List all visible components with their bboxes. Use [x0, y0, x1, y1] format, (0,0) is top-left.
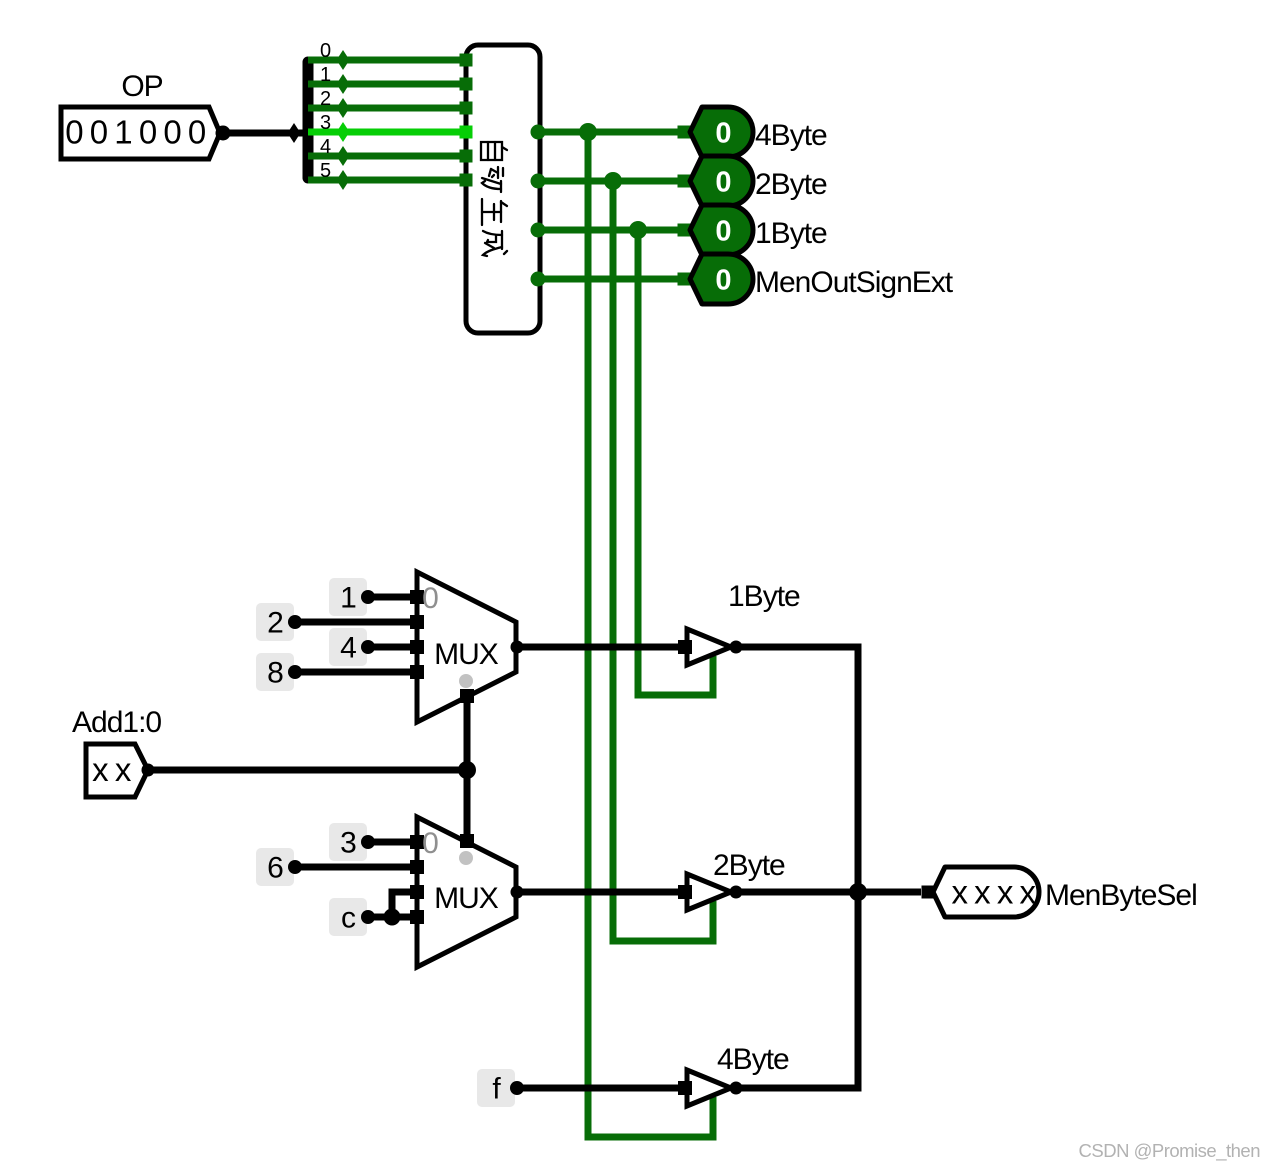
U1 input pin 1: [460, 78, 473, 91]
svg-text:CSDN @Promise_then: CSDN @Promise_then: [1079, 1140, 1261, 1162]
wire M2 out to buffer B2: [517, 889, 686, 896]
splitter input arrow: [288, 123, 301, 143]
constant 2: [256, 603, 294, 641]
pin dot constant 1: [361, 590, 375, 604]
M2 output dot: [511, 886, 524, 899]
svg-text:2Byte: 2Byte: [755, 168, 827, 201]
wire constant 6: [295, 864, 417, 871]
M2 select pin: [460, 834, 474, 848]
splitter arrow bit5: [337, 170, 350, 190]
splitter arrow bit3: [337, 122, 350, 142]
output 4Byte input pin: [678, 126, 691, 139]
U1 output pin 2Byte: [531, 174, 546, 189]
svg-text:4: 4: [340, 632, 356, 665]
svg-text:0 0 1 0 0 0: 0 0 1 0 0 0: [65, 114, 206, 151]
constant 1: [329, 578, 367, 616]
output 1Byte input pin: [678, 224, 691, 237]
wire U1 to output MenOutSignExt: [538, 276, 690, 283]
wire constant 8: [295, 669, 417, 676]
svg-text:x x: x x: [92, 751, 132, 788]
M2 input pin y917: [410, 910, 424, 924]
svg-text:8: 8: [267, 657, 283, 690]
svg-text:MenByteSel: MenByteSel: [1045, 879, 1197, 912]
svg-text:6: 6: [267, 852, 283, 885]
svg-text:0: 0: [715, 265, 730, 297]
output LED 4Byte: [690, 107, 753, 157]
svg-text:3: 3: [340, 827, 356, 860]
output MenByteSel input pin: [922, 886, 935, 899]
svg-text:MUX: MUX: [434, 882, 499, 915]
buffer 2Byte output dot: [730, 886, 743, 899]
wire constant 4: [368, 644, 417, 651]
pin dot constant 3: [361, 835, 375, 849]
input pin Add1:0 value xx: [86, 744, 148, 797]
svg-text:2: 2: [320, 88, 331, 110]
M2 input pin y842: [410, 835, 424, 849]
constant 4: [329, 628, 367, 666]
constant c: [329, 898, 367, 936]
output LED 2Byte: [690, 156, 753, 206]
svg-text:1Byte: 1Byte: [728, 580, 800, 613]
M1 output dot: [511, 641, 524, 654]
M2 select indicator dot: [459, 851, 473, 865]
node J3 on 1Byte wire: [629, 221, 647, 239]
U1 output pin 1Byte: [531, 223, 546, 238]
buffer 2Byte input pin: [678, 885, 692, 899]
svg-text:0: 0: [715, 118, 730, 150]
constant f: [477, 1069, 515, 1107]
buffer 4Byte output dot: [730, 1082, 743, 1095]
svg-text:MenOutSignExt: MenOutSignExt: [755, 266, 954, 299]
splitter arrow bit1: [337, 74, 350, 94]
tristate buffer 2Byte: [687, 874, 731, 910]
svg-text:0: 0: [422, 827, 438, 860]
wire B2 out to output pin: [736, 889, 921, 896]
svg-text:0: 0: [715, 216, 730, 248]
svg-text:0: 0: [320, 40, 331, 62]
svg-text:c: c: [341, 902, 356, 935]
svg-text:x x x x: x x x x: [951, 874, 1036, 911]
svg-text:4Byte: 4Byte: [717, 1043, 789, 1076]
svg-text:MUX: MUX: [434, 638, 499, 671]
wire splitter bit5: [308, 177, 466, 184]
U1 output pin MenOutSignExt: [531, 272, 546, 287]
wire splitter bit3: [308, 129, 466, 136]
svg-text:1: 1: [340, 582, 356, 615]
pin dot constant 8: [288, 665, 302, 679]
U1 input pin 2: [460, 102, 473, 115]
constant 8: [256, 653, 294, 691]
buffer 1Byte output dot: [730, 641, 743, 654]
U1 input pin 0: [460, 54, 473, 67]
pin dot Add1:0: [142, 764, 155, 777]
output LED 1Byte: [690, 205, 753, 255]
input pin OP value 001000: [61, 107, 220, 159]
node on c wire: [384, 909, 401, 926]
svg-text:4: 4: [320, 136, 331, 158]
output LED MenOutSignExt: [690, 254, 753, 304]
output MenOutSignExt input pin: [678, 273, 691, 286]
wire splitter bit2: [308, 105, 466, 112]
wire Add1:0 to select junction: [148, 767, 463, 774]
pin dot constant 6: [288, 860, 302, 874]
wire 4Byte enable run: [588, 132, 713, 1137]
wire constant 2: [295, 619, 417, 626]
M1 input pin y647: [410, 640, 424, 654]
wire splitter bit0: [308, 57, 466, 64]
tristate buffer 1Byte: [687, 629, 731, 665]
wire B1 out to bus: [736, 647, 858, 888]
splitter arrow bit2: [337, 98, 350, 118]
mux M1: [417, 572, 516, 722]
wire OP to splitter: [228, 130, 304, 137]
svg-text:4Byte: 4Byte: [755, 119, 827, 152]
M1 select pin: [460, 689, 474, 703]
pin dot constant f: [510, 1081, 524, 1095]
svg-text:OP: OP: [121, 70, 162, 103]
wire select chain M1 to M2: [464, 700, 471, 838]
constant 3: [329, 823, 367, 861]
node J1 on 4Byte wire: [579, 123, 597, 141]
svg-text:0: 0: [422, 582, 438, 615]
pin dot OP output: [216, 126, 231, 141]
U1 output pin 4Byte: [531, 125, 546, 140]
U1 input pin 3: [460, 126, 473, 139]
splitter arrow bit0: [337, 50, 350, 70]
node output bus junction: [849, 883, 867, 901]
svg-text:1: 1: [320, 64, 331, 86]
M2 input pin y867: [410, 860, 424, 874]
wire U1 to output 1Byte: [538, 227, 690, 234]
node J2 on 2Byte wire: [604, 172, 622, 190]
tristate buffer 4Byte: [687, 1070, 731, 1106]
wire M1 out to buffer B1: [517, 644, 686, 651]
pin dot constant 2: [288, 615, 302, 629]
wire constant c fork to mux pin2: [392, 892, 417, 917]
M1 input pin y672: [410, 665, 424, 679]
splitter S1 bar: [303, 62, 314, 178]
wire constant 1: [368, 594, 417, 601]
svg-text:5: 5: [320, 160, 331, 182]
svg-text:3: 3: [320, 112, 331, 134]
node select/Add junction: [458, 761, 476, 779]
svg-text:2: 2: [267, 607, 283, 640]
M1 input pin y622: [410, 615, 424, 629]
output pin MenByteSel: [933, 867, 1039, 917]
U1 label text (vertical CJK): [481, 142, 507, 256]
wire constant c to mux pin3: [368, 914, 417, 921]
svg-text:Add1:0: Add1:0: [72, 706, 161, 739]
M1 input pin y597: [410, 590, 424, 604]
svg-text:1Byte: 1Byte: [755, 217, 827, 250]
pin dot constant 4: [361, 640, 375, 654]
pin dot constant c: [361, 910, 375, 924]
wire 1Byte enable run: [638, 230, 713, 695]
constant 6: [256, 848, 294, 886]
decoder box U1 (auto-generated logic): [466, 45, 540, 333]
buffer 1Byte input pin: [678, 640, 692, 654]
wire constant f: [517, 1085, 686, 1092]
splitter arrow bit4: [337, 146, 350, 166]
M2 input pin y892: [410, 885, 424, 899]
buffer 4Byte input pin: [678, 1081, 692, 1095]
wire B3 out to bus: [736, 896, 858, 1088]
wire constant 3: [368, 839, 417, 846]
mux M2: [417, 817, 516, 967]
output 2Byte input pin: [678, 175, 691, 188]
wire U1 to output 4Byte: [538, 129, 690, 136]
svg-text:0: 0: [715, 167, 730, 199]
U1 input pin 5: [460, 174, 473, 187]
svg-text:2Byte: 2Byte: [713, 849, 785, 882]
wire U1 to output 2Byte: [538, 178, 690, 185]
U1 input pin 4: [460, 150, 473, 163]
wire 2Byte enable run: [613, 181, 713, 941]
wire splitter bit1: [308, 81, 466, 88]
M1 select indicator dot: [459, 674, 473, 688]
wire splitter bit4: [308, 153, 466, 160]
